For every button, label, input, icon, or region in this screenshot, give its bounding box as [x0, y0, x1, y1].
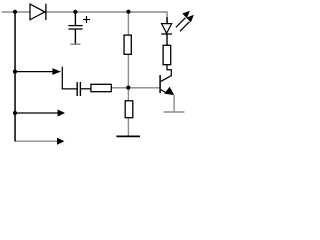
connector arrow 3 head: [57, 138, 64, 145]
LED arrow 1: [176, 11, 190, 28]
resistor R4: [91, 84, 111, 91]
node top-left junction: [13, 10, 17, 14]
capacitor C2: [77, 82, 91, 96]
transistor Q1 emitter with arrow: [161, 87, 175, 95]
wire arrow3 horizontal: [15, 140, 57, 142]
wire base to transistor: [111, 87, 160, 89]
wire middle vertical: [127, 12, 129, 136]
capacitor C1 electrolytic: [68, 12, 90, 44]
node cap junction: [73, 10, 77, 14]
ground black bar below R2: [116, 135, 140, 137]
resistor R2: [125, 101, 133, 118]
left bus vertical: [14, 12, 16, 142]
LED arrow 2: [180, 15, 194, 32]
wire emitter to ground: [173, 95, 175, 112]
resistor R3: [163, 45, 171, 64]
ground gray bar below capacitor C1: [70, 43, 80, 45]
connector arrow 1: [15, 68, 61, 75]
node arrow2 junction: [13, 111, 17, 115]
wire top rail: [2, 12, 168, 23]
node base junction: [126, 86, 130, 90]
diode D1: [30, 4, 46, 20]
resistor R1: [124, 35, 131, 54]
transistor Q1 collector lead: [161, 65, 172, 82]
LED D2: [161, 17, 172, 45]
wire link arrow1 to C2: [62, 67, 77, 89]
ground gray bar at emitter: [164, 111, 185, 113]
node arrow1 junction: [13, 70, 17, 74]
transistor Q1 base bar: [159, 75, 161, 93]
node middle top junction: [126, 10, 130, 14]
connector arrow 2: [15, 110, 65, 117]
